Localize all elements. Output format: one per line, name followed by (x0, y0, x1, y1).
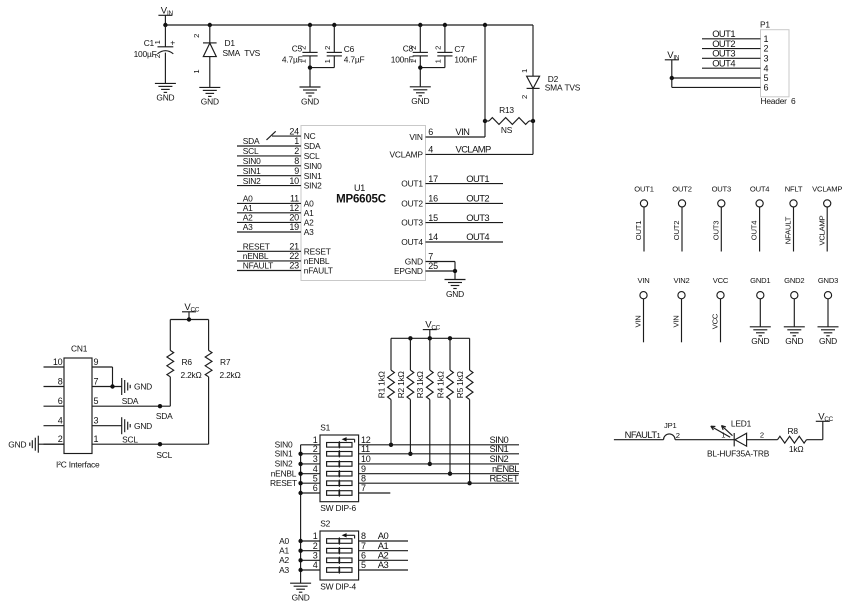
svg-text:SDA: SDA (156, 411, 173, 421)
svg-text:2: 2 (313, 444, 318, 454)
junction R3 bottom (428, 462, 432, 466)
junction P1 pin5 (670, 76, 674, 80)
wire/node SIN1 (S1 right) (359, 443, 519, 454)
svg-text:2: 2 (520, 95, 529, 99)
svg-text:4: 4 (313, 560, 318, 570)
connector P1 Header 6 (760, 19, 796, 106)
svg-text:R4 1kΩ: R4 1kΩ (435, 371, 445, 398)
test point OUT4 (750, 184, 770, 251)
svg-text:OUT1: OUT1 (634, 221, 643, 240)
wire/node SIN0 (U1 left) (237, 156, 301, 166)
svg-text:2: 2 (313, 541, 318, 551)
node label A1 (S2 left) (279, 546, 289, 556)
svg-text:P1: P1 (760, 19, 770, 29)
capacitor C6 4.7µF (323, 25, 364, 68)
svg-text:4: 4 (764, 63, 769, 73)
wire/node A3 (U1 left) (237, 222, 301, 232)
svg-text:1: 1 (520, 69, 529, 73)
svg-text:RESET: RESET (243, 242, 270, 252)
svg-text:GND: GND (134, 421, 152, 431)
resistor R13 NS (485, 105, 533, 135)
junction VIN-R13 left (483, 119, 487, 123)
svg-text:R1 1kΩ: R1 1kΩ (376, 371, 386, 398)
wire C8-C7 join (420, 68, 445, 87)
svg-text:6: 6 (313, 483, 318, 493)
junction R13-D2 (531, 119, 535, 123)
wire S1 pin 3 left (301, 454, 320, 464)
svg-text:5: 5 (94, 396, 99, 406)
junction S2 bus (298, 539, 302, 543)
svg-text:GND: GND (201, 97, 219, 107)
svg-text:VCLAMP: VCLAMP (817, 215, 826, 245)
svg-text:2.2kΩ: 2.2kΩ (181, 370, 202, 380)
test point GND3 (818, 276, 839, 346)
svg-text:7: 7 (94, 377, 99, 387)
svg-text:A3: A3 (243, 222, 253, 232)
diode D2 SMA TVS (520, 25, 581, 154)
svg-text:CN1: CN1 (71, 344, 88, 354)
wire VIN rail (165, 24, 533, 26)
svg-text:SMA TVS: SMA TVS (223, 48, 261, 58)
switch S2 SW DIP-4 (320, 519, 359, 592)
svg-text:R5 1kΩ: R5 1kΩ (455, 371, 465, 398)
svg-text:GND: GND (785, 336, 803, 346)
junction S1 bus (298, 452, 302, 456)
svg-text:VCC: VCC (425, 320, 440, 332)
svg-text:5: 5 (361, 560, 366, 570)
svg-text:22: 22 (289, 251, 299, 261)
svg-text:Header 6: Header 6 (761, 96, 797, 106)
wire CN1 pin2 to ground (38, 443, 64, 445)
svg-text:VCLAMP: VCLAMP (390, 150, 424, 160)
resistor R6 2.2k (167, 320, 202, 407)
junction CN1 pin7/pin9 (110, 384, 114, 388)
svg-text:OUT4: OUT4 (401, 237, 423, 247)
wire/node OUT1 (P1) (702, 28, 761, 39)
svg-text:OUT3: OUT3 (711, 221, 720, 240)
svg-text:A2: A2 (243, 213, 253, 223)
jumper JP1 (656, 421, 679, 440)
wire/node A2 (S2 right) (359, 550, 408, 561)
wire/node OUT3 (U1 right) (426, 212, 504, 223)
svg-text:nENBL: nENBL (243, 251, 269, 261)
svg-text:nFAULT: nFAULT (304, 266, 333, 276)
svg-text:3: 3 (764, 53, 769, 63)
test point VIN (634, 276, 650, 342)
test point NFLT (784, 184, 803, 251)
ground (CN1 pin 3) (122, 417, 152, 434)
node label SIN2 (S1 left) (275, 459, 293, 469)
junction S1 bus (298, 481, 302, 485)
junction S1 bus (298, 472, 302, 476)
junction S2 bus (298, 549, 302, 553)
svg-text:nENBL: nENBL (271, 469, 297, 479)
svg-text:OUT4: OUT4 (712, 57, 735, 68)
node label A3 (S2 left) (279, 565, 289, 575)
wire/node OUT4 (P1) (702, 57, 761, 68)
svg-text:25: 25 (428, 261, 438, 271)
svg-text:11: 11 (361, 444, 370, 454)
svg-text:OUT4: OUT4 (466, 231, 489, 242)
svg-text:NFAULT: NFAULT (243, 261, 273, 271)
resistor R4 1k (435, 338, 453, 473)
ground (S1/S2 common) (290, 583, 311, 602)
svg-text:GND: GND (292, 593, 310, 603)
LED LED1 BL-HUF35A-TRB (707, 418, 770, 458)
svg-text:2: 2 (409, 46, 418, 50)
svg-text:2: 2 (299, 46, 308, 50)
wire S2 pin 4 left (301, 560, 320, 570)
test point VCC (711, 276, 729, 342)
svg-text:24: 24 (289, 126, 299, 136)
svg-text:SIN2: SIN2 (243, 176, 261, 186)
svg-text:OUT3: OUT3 (466, 212, 489, 223)
svg-text:VIN: VIN (637, 276, 649, 285)
wire S2 pin 1 left (301, 531, 320, 541)
svg-text:A2: A2 (304, 218, 314, 228)
wire/node A1 (U1 left) (237, 203, 301, 213)
wire VIN pin 6 (426, 126, 486, 137)
svg-text:RESET: RESET (490, 472, 519, 483)
svg-text:OUT4: OUT4 (750, 221, 759, 240)
svg-text:12: 12 (289, 203, 299, 213)
svg-text:2: 2 (764, 44, 769, 54)
svg-text:10: 10 (361, 454, 371, 464)
svg-text:1: 1 (94, 434, 99, 444)
wire/node RESET (S1 right) (359, 472, 519, 483)
junction rail-D1 (208, 23, 212, 27)
svg-text:GND: GND (411, 96, 429, 106)
svg-text:U1: U1 (354, 183, 365, 193)
svg-text:6: 6 (428, 127, 433, 137)
test point VCLAMP (812, 184, 842, 251)
wire/node nENBL (S1 right) (359, 463, 520, 474)
svg-text:OUT3: OUT3 (712, 184, 731, 193)
svg-text:NFAULT: NFAULT (625, 429, 658, 440)
svg-text:8: 8 (361, 473, 366, 483)
junction bus-R2 (408, 336, 412, 340)
wire/node OUT3 (P1) (702, 48, 761, 59)
svg-text:1: 1 (313, 531, 318, 541)
svg-text:S2: S2 (320, 519, 330, 529)
svg-text:R8: R8 (788, 426, 799, 436)
junction C5-C6 (308, 65, 312, 69)
wire/node SIN0 (S1 right) (359, 434, 519, 445)
svg-text:2: 2 (294, 146, 299, 156)
test point OUT3 (711, 184, 731, 251)
wire R8 to VCC (807, 421, 823, 439)
svg-text:1: 1 (434, 59, 443, 63)
svg-text:17: 17 (428, 174, 438, 184)
resistor R5 1k (455, 338, 473, 483)
svg-text:GND: GND (156, 93, 174, 103)
svg-text:VCC: VCC (711, 313, 720, 329)
svg-text:8: 8 (361, 531, 366, 541)
svg-text:A1: A1 (279, 546, 289, 556)
node label nENBL (S1 left) (271, 469, 297, 479)
svg-text:2: 2 (58, 434, 63, 444)
wire CN1 pin9 (92, 367, 113, 387)
ground (C8/C7) (410, 87, 431, 106)
svg-text:8: 8 (294, 156, 299, 166)
power flag VIN (P1) (665, 50, 680, 88)
svg-text:7: 7 (361, 541, 366, 551)
svg-text:1: 1 (721, 431, 725, 440)
svg-text:14: 14 (428, 232, 438, 242)
svg-text:1: 1 (294, 136, 299, 146)
ground (U1) (445, 280, 466, 299)
svg-text:2: 2 (192, 34, 201, 38)
ground (C5/C6) (300, 87, 321, 106)
svg-text:SIN1: SIN1 (275, 449, 293, 459)
svg-text:VCC: VCC (184, 302, 199, 314)
svg-text:SW DIP-4: SW DIP-4 (320, 582, 356, 592)
svg-text:SDA: SDA (243, 136, 260, 146)
svg-text:6: 6 (764, 83, 769, 93)
node label A2 (S2 left) (279, 555, 289, 565)
resistor R3 1k (415, 338, 433, 464)
svg-text:20: 20 (289, 213, 299, 223)
junction rail-C8 (418, 23, 422, 27)
svg-text:C7: C7 (454, 44, 465, 54)
svg-text:2: 2 (434, 46, 443, 50)
svg-text:OUT1: OUT1 (466, 173, 489, 184)
wire VCLAMP pin 4 (426, 144, 534, 155)
svg-text:OUT2: OUT2 (672, 184, 691, 193)
junction bus-R4 (448, 336, 452, 340)
wire/node OUT1 (U1 right) (426, 173, 504, 184)
svg-text:9: 9 (94, 357, 99, 367)
test point OUT2 (672, 184, 692, 251)
wire/node NFAULT (LED branch) (614, 429, 664, 440)
svg-text:SMA TVS: SMA TVS (545, 83, 581, 93)
svg-text:NC: NC (304, 131, 316, 141)
resistor R8 1k (778, 426, 807, 454)
svg-text:R7: R7 (220, 357, 231, 367)
svg-text:VIN2: VIN2 (673, 276, 689, 285)
pin 24 NC stub (267, 131, 302, 140)
test point GND2 (784, 276, 805, 346)
wire/node SIN1 (U1 left) (237, 166, 301, 176)
ground (C1) (155, 83, 176, 102)
wire/node SIN2 (S1 right) (359, 453, 519, 464)
svg-text:RESET: RESET (304, 246, 331, 256)
svg-text:A3: A3 (378, 559, 389, 570)
diode D1 SMA TVS (192, 25, 261, 87)
svg-text:D1: D1 (225, 38, 236, 48)
svg-text:nENBL: nENBL (304, 256, 330, 266)
svg-text:OUT2: OUT2 (401, 199, 423, 209)
connector CN1 I2C interface (44, 344, 101, 470)
svg-text:VIN: VIN (455, 126, 469, 137)
junction S2 bus (298, 568, 302, 572)
wire/node OUT2 (P1) (702, 38, 761, 49)
wire R1-R5 top bus (391, 337, 470, 339)
wire/node SIN2 (U1 left) (237, 176, 301, 186)
wire/node A3 (S2 right) (359, 559, 408, 570)
svg-text:A1: A1 (304, 208, 314, 218)
capacitor C5 4.7µF (282, 25, 318, 68)
svg-text:GND: GND (301, 96, 319, 106)
junction S1 bus (298, 462, 302, 466)
svg-text:JP1: JP1 (664, 421, 677, 430)
svg-text:OUT4: OUT4 (750, 184, 769, 193)
junction R2 bottom (408, 452, 412, 456)
svg-text:GND: GND (134, 382, 152, 392)
svg-text:GND: GND (405, 257, 423, 267)
svg-text:2: 2 (153, 54, 162, 58)
svg-text:23: 23 (289, 261, 299, 271)
svg-text:1: 1 (323, 59, 332, 63)
resistor R7 2.2k (205, 320, 240, 445)
svg-text:C6: C6 (344, 44, 355, 54)
svg-text:VIN: VIN (409, 132, 423, 142)
svg-text:VCLAMP: VCLAMP (812, 184, 842, 193)
power flag VIN (top left) (158, 5, 173, 25)
svg-text:1kΩ: 1kΩ (789, 444, 804, 454)
svg-text:3: 3 (313, 551, 318, 561)
svg-text:6: 6 (58, 396, 63, 406)
junction rail-C7 (443, 23, 447, 27)
svg-text:16: 16 (428, 194, 438, 204)
svg-text:GND3: GND3 (818, 276, 838, 285)
svg-text:A1: A1 (243, 203, 253, 213)
svg-text:I²C Interface: I²C Interface (56, 459, 100, 469)
wire/node SCL (U1 left) (237, 146, 301, 156)
svg-text:15: 15 (428, 213, 438, 223)
junction SCL (158, 442, 162, 446)
svg-text:9: 9 (361, 464, 366, 474)
resistor R2 1k (396, 338, 414, 454)
svg-text:7: 7 (361, 483, 366, 493)
junction SDA (158, 404, 162, 408)
power flag VCC (R6/R7) (182, 302, 200, 320)
svg-text:GND: GND (819, 336, 837, 346)
test point OUT1 (634, 184, 654, 251)
svg-text:4.7µF: 4.7µF (344, 55, 365, 65)
wire S1 pin 6 left (301, 483, 320, 493)
capacitor C8 100nF (391, 25, 428, 68)
svg-text:10: 10 (289, 176, 299, 186)
svg-text:VIN: VIN (667, 50, 680, 62)
capacitor C1 100µF (134, 25, 176, 83)
wire P1 pin 5 (672, 77, 761, 79)
test point GND1 (750, 276, 771, 346)
ground (CN1 pin 2) (8, 436, 38, 453)
junction rail-C5 (308, 23, 312, 27)
svg-text:R3 1kΩ: R3 1kΩ (415, 371, 425, 398)
ground (CN1 pins 7,9) (122, 378, 152, 395)
wire S2 pin 2 left (301, 541, 320, 551)
wire/node SDA (CN1 pin5) (92, 396, 173, 421)
wire R6-R7 top (170, 319, 208, 321)
wire S2 pin 3 left (301, 551, 320, 561)
svg-text:NFAULT: NFAULT (784, 216, 793, 244)
wire S1/S2 common bus (300, 445, 302, 583)
svg-text:2: 2 (323, 46, 332, 50)
svg-text:NS: NS (501, 125, 513, 135)
svg-text:1: 1 (299, 59, 308, 63)
svg-text:SIN2: SIN2 (275, 459, 293, 469)
svg-text:R13: R13 (499, 105, 514, 115)
node label SIN1 (S1 left) (275, 449, 293, 459)
svg-text:SIN0: SIN0 (304, 161, 322, 171)
wire/node OUT4 (U1 right) (426, 231, 504, 242)
svg-text:OUT1: OUT1 (401, 179, 423, 189)
node label SIN0 (S1 left) (275, 440, 293, 450)
wire VIN branch vertical (484, 25, 486, 137)
svg-text:19: 19 (289, 222, 299, 232)
svg-text:9: 9 (294, 166, 299, 176)
svg-text:VIN: VIN (672, 315, 681, 327)
svg-text:GND: GND (8, 439, 26, 449)
svg-text:VCLAMP: VCLAMP (456, 144, 492, 155)
svg-text:+: + (170, 38, 175, 48)
svg-text:4: 4 (428, 145, 433, 155)
svg-text:6: 6 (361, 551, 366, 561)
svg-text:SDA: SDA (304, 141, 321, 151)
wire S1 pin 4 left (301, 464, 320, 474)
svg-text:A0: A0 (279, 536, 289, 546)
wire C5-C6 join (310, 68, 334, 87)
svg-text:VCC: VCC (818, 411, 833, 423)
svg-text:SCL: SCL (122, 434, 138, 444)
ground (D1) (199, 87, 220, 106)
svg-text:GND2: GND2 (784, 276, 804, 285)
wire LED1 to R8 (747, 439, 778, 441)
svg-text:S1: S1 (320, 423, 330, 433)
wire S1 pin 2 left (301, 444, 320, 454)
svg-text:3: 3 (94, 416, 99, 426)
svg-text:3: 3 (313, 454, 318, 464)
switch S1 SW DIP-6 (320, 423, 359, 514)
svg-text:GND: GND (446, 289, 464, 299)
svg-text:VIN: VIN (161, 5, 174, 17)
wire/node OUT2 (U1 right) (426, 193, 504, 204)
svg-text:A3: A3 (279, 565, 289, 575)
svg-text:OUT2: OUT2 (672, 221, 681, 240)
junction R1 bottom (389, 443, 393, 447)
junction R4 bottom (448, 472, 452, 476)
svg-text:A2: A2 (279, 555, 289, 565)
svg-text:SCL: SCL (156, 450, 172, 460)
svg-text:R2 1kΩ: R2 1kΩ (396, 371, 406, 398)
svg-text:21: 21 (289, 242, 299, 252)
svg-text:OUT2: OUT2 (466, 193, 489, 204)
op-amp U1 MP6605C (driver IC) (289, 126, 438, 281)
svg-text:1: 1 (409, 59, 418, 63)
junction bus-VCC (428, 336, 432, 340)
junction S1 bus (298, 491, 302, 495)
junction R5 bottom (467, 481, 471, 485)
svg-text:2: 2 (676, 431, 680, 440)
wire/node nENBL (U1 left) (237, 251, 301, 261)
junction rail-R13 branch (483, 23, 487, 27)
wire/node A1 (S2 right) (359, 540, 408, 551)
capacitor C7 100nF (434, 25, 478, 68)
svg-text:SCL: SCL (243, 146, 259, 156)
svg-text:SIN2: SIN2 (304, 181, 322, 191)
wire/node RESET (U1 left) (237, 242, 301, 252)
junction rail-C1 (163, 23, 167, 27)
svg-text:1: 1 (656, 431, 660, 440)
svg-text:A3: A3 (304, 227, 314, 237)
svg-text:OUT3: OUT3 (401, 218, 423, 228)
junction VCC-R6R7 (187, 317, 191, 321)
svg-text:BL-HUF35A-TRB: BL-HUF35A-TRB (707, 448, 770, 458)
svg-text:SW DIP-6: SW DIP-6 (320, 503, 356, 513)
svg-text:GND: GND (751, 336, 769, 346)
